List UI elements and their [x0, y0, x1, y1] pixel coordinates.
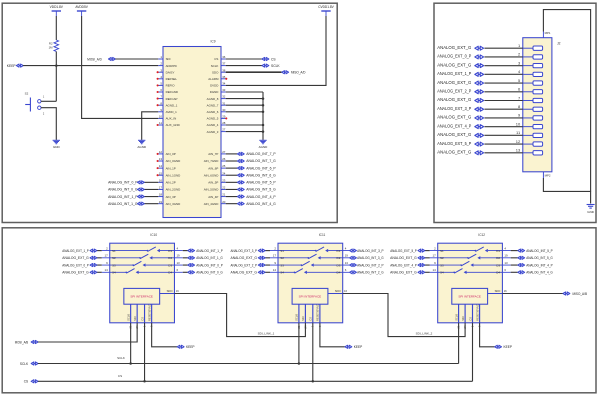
svg-text:13: 13: [176, 261, 180, 265]
wire ANALOG_INT_0_P to pin 16: [144, 181, 158, 183]
IC12 switch channel 1: [430, 250, 476, 252]
wire IC10 D2 to ANALOG_INT_1_G: [183, 257, 188, 259]
svg-text:D4: D4: [337, 270, 341, 274]
wire MP2 to right rail: [543, 178, 590, 204]
junction CS/IC10: [143, 380, 146, 383]
wire IC12 SDO to MISO_A/B: [502, 293, 562, 295]
port ANALOG_INT_0_P: [188, 264, 195, 267]
svg-text:19: 19: [345, 254, 349, 258]
IC9 pin 4 REFSEL: [158, 78, 163, 80]
wire VDD1.8V to resistor: [55, 16, 57, 40]
IC9 pin 21 AIN_4P: [221, 196, 226, 198]
junction SCLK/IC11: [298, 362, 301, 365]
IC9 pin 7 REFCAP: [158, 98, 163, 100]
svg-text:AGND_8: AGND_8: [207, 97, 219, 101]
svg-text:AUX_GND: AUX_GND: [166, 123, 180, 127]
svg-text:CS: CS: [24, 380, 28, 384]
svg-text:26: 26: [222, 157, 226, 161]
analog switch IC11 body: [278, 243, 343, 323]
wire pin 23 to ANALOG_INT_5_P: [226, 181, 238, 183]
svg-text:MISO_A/D: MISO_A/D: [291, 71, 306, 75]
svg-text:S2: S2: [112, 256, 116, 260]
svg-text:ANALOG_INT_4_P: ANALOG_INT_4_P: [246, 195, 276, 199]
svg-text:37: 37: [222, 62, 226, 66]
IC12 pin CS: [472, 304, 474, 323]
svg-text:CS: CS: [271, 57, 276, 61]
wire pin 25 to ANALOG_INT_6_P: [226, 167, 238, 169]
svg-text:MOSI_A/B: MOSI_A/B: [15, 340, 29, 344]
wire CVDD1.8V to DVDD pin 34: [226, 16, 326, 85]
wire MOSI_A/B to IC10 SDI: [38, 323, 137, 342]
IC9 pin 23 AIN_5P: [221, 181, 226, 183]
port ANALOG_INT_4_G: [518, 271, 525, 274]
IC11 switch channel 3: [270, 264, 301, 266]
svg-text:ANALOG_INT_6_P: ANALOG_INT_6_P: [246, 166, 276, 170]
svg-text:14: 14: [273, 268, 277, 272]
J2 pin 2: [523, 56, 533, 58]
svg-text:15: 15: [159, 171, 163, 175]
IC9 pin 18 AIN_3P: [158, 196, 163, 198]
svg-text:SDI: SDI: [166, 57, 171, 61]
svg-text:SCLK: SCLK: [454, 314, 458, 321]
svg-text:S3: S3: [112, 263, 116, 267]
svg-text:AIN_5GND: AIN_5GND: [204, 188, 219, 192]
svg-text:AIN_0GND: AIN_0GND: [166, 159, 181, 163]
svg-text:ANALOG_INT_7_P: ANALOG_INT_7_P: [246, 152, 276, 156]
svg-text:ANALOG_EXT_3_P: ANALOG_EXT_3_P: [437, 106, 471, 111]
wire ANALOG_EXT_0_P to IC10 S3: [97, 264, 102, 266]
svg-text:REFSEL: REFSEL: [166, 77, 178, 81]
J2 pin 13: [523, 152, 533, 154]
IC11 pin SDI: [304, 304, 306, 323]
svg-text:MISO_A/B: MISO_A/B: [573, 292, 588, 296]
svg-text:ANALOG_INT_1_P: ANALOG_INT_1_P: [196, 249, 223, 253]
svg-text:AIN_6GND: AIN_6GND: [204, 173, 219, 177]
svg-text:ANALOG_INT_0_G: ANALOG_INT_0_G: [108, 188, 138, 192]
svg-text:AGND: AGND: [137, 145, 147, 149]
svg-text:IC11: IC11: [319, 233, 326, 237]
port ANALOG_INT_4_G: [237, 202, 244, 205]
wire IC11 D3 to ANALOG_INT_2_P: [348, 264, 350, 266]
wire ANALOG_EXT_G to IC10 S4: [97, 271, 102, 273]
wire ANALOG_EXT_3_P to IC11 S1: [265, 250, 270, 252]
svg-text:13: 13: [516, 148, 521, 153]
wire pin 26 to ANALOG_INT_7_G: [226, 160, 238, 162]
svg-text:ANALOG_INT_1_G: ANALOG_INT_1_G: [108, 202, 138, 206]
wire ANALOG_EXT_G to J2 pin 3: [484, 65, 522, 67]
svg-text:VDD1.8V: VDD1.8V: [50, 5, 64, 9]
svg-text:ANALOG_EXT_G: ANALOG_EXT_G: [390, 256, 417, 260]
svg-text:10: 10: [516, 121, 521, 126]
wire KEEP to pin 2: [23, 65, 158, 67]
svg-text:17: 17: [159, 186, 163, 190]
wire SCLK bus: [38, 363, 459, 365]
wire ANALOG_EXT_4_P to IC12 S3: [425, 264, 430, 266]
wire IC12 D2 to ANALOG_INT_5_G: [511, 257, 518, 259]
svg-text:ANALOG_INT_1_G: ANALOG_INT_1_G: [196, 256, 223, 260]
svg-text:ANALOG_EXT_G: ANALOG_EXT_G: [231, 270, 258, 274]
wire IC11 SDO to IC12 SDI (SDI_LINK_2): [343, 294, 465, 337]
power VDD1.8V: [50, 5, 64, 16]
IC12 SPI interface block: [452, 288, 488, 304]
port ANALOG_INT_7_G: [237, 159, 244, 162]
port ANALOG_INT_4_P: [237, 195, 244, 198]
ground GND (J2): [587, 205, 595, 215]
wire IC11 CS drop: [312, 323, 314, 382]
IC10 pin SDO: [160, 293, 175, 295]
svg-text:ANALOG_INT_4_G: ANALOG_INT_4_G: [246, 202, 276, 206]
svg-text:CVDD1.8V: CVDD1.8V: [318, 5, 334, 9]
svg-text:16: 16: [176, 289, 179, 293]
wire IC11 D4 to ANALOG_INT_2_G: [348, 271, 350, 273]
IC9 pin 6 REFGND: [158, 91, 163, 93]
port SCLK: [262, 64, 269, 67]
wire IC11 SCLK drop: [298, 323, 300, 364]
J2 pin 7: [523, 100, 533, 102]
wire ANALOG_EXT_3_P to J2 pin 8: [484, 108, 522, 110]
svg-text:DAISY: DAISY: [166, 70, 175, 74]
wire IC12 D1 to ANALOG_INT_5_P: [511, 250, 518, 252]
wire ANALOG_EXT_0_P to J2 pin 2: [484, 56, 522, 58]
port ANALOG_INT_5_P: [518, 249, 525, 252]
svg-text:AIN_1P: AIN_1P: [166, 166, 176, 170]
svg-text:ANALOG_EXT_3_P: ANALOG_EXT_3_P: [231, 249, 258, 253]
ground AGND (pin 8): [137, 140, 147, 149]
port ANALOG_INT_5_G: [237, 188, 244, 191]
svg-text:21: 21: [222, 193, 226, 197]
IC9 pin 36 CS: [221, 58, 226, 60]
J2 pin 3: [523, 65, 533, 67]
wire ANALOG_EXT_G to J2 pin 11: [484, 134, 522, 136]
IC9 pin 20 AIN_4GND: [221, 203, 226, 205]
svg-text:ANALOG_INT_1_P: ANALOG_INT_1_P: [108, 195, 138, 199]
svg-text:S2: S2: [440, 256, 444, 260]
svg-text:REFIO: REFIO: [166, 84, 176, 88]
wire ANALOG_EXT_G to J2 pin 13: [484, 152, 522, 154]
svg-text:ANALOG_EXT_G: ANALOG_EXT_G: [437, 62, 471, 67]
svg-text:S2: S2: [25, 92, 29, 96]
svg-text:ANALOG_INT_5_G: ANALOG_INT_5_G: [246, 188, 276, 192]
IC9 pin 1 SDI: [158, 58, 163, 60]
svg-text:AIN_6P: AIN_6P: [208, 166, 218, 170]
svg-text:S4: S4: [280, 270, 284, 274]
svg-text:AGND: AGND: [259, 145, 269, 149]
IC9 pin 33 DGND: [221, 91, 226, 93]
svg-text:SDO: SDO: [495, 289, 501, 293]
IC12 pin RESET/SYNC: [479, 304, 481, 323]
svg-text:ANALOG_INT_6_G: ANALOG_INT_6_G: [246, 173, 276, 177]
svg-text:AIN_1GND: AIN_1GND: [166, 173, 181, 177]
svg-text:AIN_4GND: AIN_4GND: [204, 202, 219, 206]
IC9 pin 17 AIN_2GND: [158, 188, 163, 190]
wire IC10 D3 to ANALOG_INT_0_P: [183, 264, 188, 266]
junction SCLK/IC10: [129, 362, 132, 365]
ground AGND (right collector): [259, 140, 269, 149]
svg-text:14: 14: [105, 268, 109, 272]
IC9 pin 22 AIN_5GND: [221, 188, 226, 190]
svg-text:SDI_LINK_2: SDI_LINK_2: [416, 332, 433, 336]
port ANALOG_INT_2_P: [350, 264, 357, 267]
IC9 pin 27 AIN_7P: [221, 153, 226, 155]
svg-text:S4: S4: [440, 270, 444, 274]
wire IC12 CS drop: [472, 323, 474, 382]
svg-text:ANALOG_INT_4_P: ANALOG_INT_4_P: [526, 263, 553, 267]
svg-text:ANALOG_INT_3_P: ANALOG_INT_3_P: [357, 249, 384, 253]
svg-text:RESET/SYNC: RESET/SYNC: [147, 304, 151, 321]
svg-text:ANALOG_EXT_5_P: ANALOG_EXT_5_P: [437, 141, 471, 146]
svg-text:SCLK: SCLK: [126, 314, 130, 321]
svg-text:KEEP: KEEP: [504, 345, 513, 349]
svg-text:S4: S4: [112, 270, 116, 274]
svg-text:AIN_3P: AIN_3P: [166, 195, 176, 199]
svg-text:D1: D1: [168, 249, 172, 253]
svg-text:CS: CS: [468, 317, 472, 321]
IC12 switch channel 2: [430, 257, 468, 259]
IC9 pin 10 AUX_IN: [158, 117, 163, 119]
svg-text:REFCAP: REFCAP: [166, 97, 178, 101]
IC9 pin 27 AGND_3: [221, 131, 226, 133]
wire pin 27 to ANALOG_INT_7_P: [226, 153, 238, 155]
switch S2: [25, 92, 45, 116]
wire ANALOG_EXT_G to IC12 S2: [425, 257, 430, 259]
IC12 switch channel 3: [430, 264, 461, 266]
svg-text:CS: CS: [118, 374, 122, 378]
svg-text:MP1: MP1: [545, 31, 551, 35]
IC10 switch channel 1: [102, 250, 148, 252]
IC10 SPI interface block: [124, 288, 160, 304]
svg-text:SCLK: SCLK: [211, 64, 219, 68]
svg-text:ANALOG_EXT_G: ANALOG_EXT_G: [390, 270, 417, 274]
wire IC12 D3 to ANALOG_INT_4_P: [511, 264, 518, 266]
svg-text:ANALOG_EXT_5_P: ANALOG_EXT_5_P: [390, 249, 417, 253]
wire IC12 D4 to ANALOG_INT_4_G: [511, 271, 518, 273]
wire switch top to KEEP net: [41, 100, 56, 102]
svg-text:D3: D3: [168, 263, 172, 267]
resistor R2 1M: [54, 40, 59, 52]
svg-text:SDO: SDO: [335, 289, 341, 293]
svg-text:AIN_5P: AIN_5P: [208, 181, 218, 185]
IC9 pin 38 SDO: [221, 71, 226, 73]
IC9 pin 16 AIN_2P: [158, 181, 163, 183]
svg-text:16: 16: [344, 289, 347, 293]
svg-text:AGND_5: AGND_5: [207, 117, 219, 121]
analog switch IC12 body: [438, 243, 503, 323]
wire resistor to KEEP net: [55, 52, 57, 102]
svg-text:28: 28: [222, 121, 226, 125]
svg-text:RESET/SYNC: RESET/SYNC: [316, 304, 320, 321]
wire pin 9 to AGND: [142, 112, 159, 140]
wire pin 20 to ANALOG_INT_4_G: [226, 203, 238, 205]
svg-text:13: 13: [159, 157, 163, 161]
IC9 pin 32 AGND_8: [221, 98, 226, 100]
IC10 switch channel 2: [102, 257, 140, 259]
svg-text:17: 17: [273, 254, 277, 258]
IC9 pin 34 DVDD: [221, 84, 226, 86]
svg-text:14: 14: [432, 268, 436, 272]
IC9 pin 29 AGND_5: [221, 117, 226, 119]
wire ANALOG_EXT_2_P to IC11 S3: [265, 264, 270, 266]
J2 pin 9: [523, 117, 533, 119]
svg-text:SCLK: SCLK: [20, 362, 29, 366]
svg-text:S1: S1: [440, 249, 444, 253]
IC10 pin RESET/SYNC: [151, 304, 153, 323]
svg-text:ANALOG_EXT_4_P: ANALOG_EXT_4_P: [437, 123, 471, 128]
svg-text:34: 34: [222, 82, 226, 86]
svg-text:SDI: SDI: [461, 316, 465, 321]
IC12 pin SDO: [488, 293, 503, 295]
port ANALOG_INT_5_P: [237, 181, 244, 184]
svg-text:11: 11: [159, 121, 162, 125]
junction KEEP/resistor: [55, 64, 58, 67]
svg-text:ANALOG_INT_7_G: ANALOG_INT_7_G: [246, 159, 276, 163]
svg-text:17: 17: [432, 254, 436, 258]
wire SCLK to port: [226, 65, 262, 67]
svg-text:AIN_3GND: AIN_3GND: [166, 202, 181, 206]
wire DGND group collector: [262, 92, 264, 140]
svg-text:16: 16: [159, 178, 163, 182]
pin MP1: [542, 32, 544, 38]
wire ANALOG_EXT_4_P to J2 pin 10: [484, 126, 522, 128]
J2 pin 5: [523, 82, 533, 84]
wire ANALOG_EXT_G to J2 pin 1: [484, 47, 522, 49]
svg-text:30: 30: [222, 108, 226, 112]
wire ANALOG_INT_1_G to pin 19: [144, 203, 158, 205]
IC11 SPI interface block: [292, 288, 328, 304]
port ANALOG_INT_7_P: [237, 152, 244, 155]
op IC9 ADC body: [163, 47, 221, 218]
wire IC10 SDO to IC11 SDI (SDI_LINK_1): [174, 294, 305, 337]
junctions on AGND collector: [262, 97, 265, 100]
svg-text:AGND_1: AGND_1: [166, 103, 178, 107]
port KEEP (IC12): [495, 345, 502, 348]
power AVDD5V: [75, 5, 88, 16]
svg-text:31: 31: [222, 101, 226, 105]
junction CS/IC11: [312, 380, 315, 383]
IC11 pin RESET/SYNC: [319, 304, 321, 323]
wire MOSI_A/D to pin 1: [115, 58, 158, 60]
svg-text:ANALOG_INT_5_P: ANALOG_INT_5_P: [526, 249, 553, 253]
power CVDD1.8V: [318, 5, 334, 16]
svg-text:ANALOG_EXT_G: ANALOG_EXT_G: [437, 150, 471, 155]
wire ANALOG_EXT_5_P to J2 pin 12: [484, 143, 522, 145]
svg-text:D1: D1: [496, 249, 500, 253]
svg-text:16: 16: [504, 289, 507, 293]
wire IC12 RESET to KEEP: [480, 323, 495, 347]
wire ANALOG_INT_0_G to pin 17: [144, 188, 158, 190]
svg-text:AGND_4: AGND_4: [207, 123, 219, 127]
wire ANALOG_EXT_G to J2 pin 7: [484, 100, 522, 102]
wire IC10 D1 to ANALOG_INT_1_P: [183, 250, 188, 252]
svg-text:IC10: IC10: [150, 233, 157, 237]
IC9 pin 2 ADR/PD: [158, 65, 163, 67]
IC11 pin SDO: [328, 293, 343, 295]
ground GND (switch): [53, 140, 61, 149]
svg-text:CS: CS: [140, 317, 144, 321]
IC10 pin SCLK: [130, 304, 132, 323]
pin MP2: [542, 172, 544, 178]
svg-text:SDI_LINK_1: SDI_LINK_1: [258, 332, 275, 336]
IC9 pin 26 AIN_7GND: [221, 160, 226, 162]
J2 pin 4: [523, 73, 533, 75]
svg-text:GND: GND: [53, 145, 61, 149]
svg-text:IC9: IC9: [211, 40, 216, 44]
svg-text:S3: S3: [280, 263, 284, 267]
port KEEP (IC11): [345, 345, 352, 348]
IC10 switch channel 3: [102, 264, 133, 266]
svg-text:MP2: MP2: [545, 174, 551, 178]
svg-text:AIN_7GND: AIN_7GND: [204, 159, 219, 163]
svg-text:D2: D2: [337, 256, 341, 260]
IC9 pin 19 AIN_3GND: [158, 203, 163, 205]
wire ANALOG_EXT_G to J2 pin 9: [484, 117, 522, 119]
svg-text:1M: 1M: [49, 46, 54, 50]
wire IC11 RESET to KEEP: [320, 323, 345, 347]
svg-text:AIN_2GND: AIN_2GND: [166, 188, 181, 192]
svg-text:10: 10: [159, 115, 163, 119]
IC9 pin 37 SCLK: [221, 65, 226, 67]
svg-text:D4: D4: [168, 270, 172, 274]
IC10 pin SDI: [136, 304, 138, 323]
svg-text:ANALOG_EXT_G: ANALOG_EXT_G: [437, 132, 471, 137]
svg-text:ANALOG_EXT_G: ANALOG_EXT_G: [62, 256, 89, 260]
svg-text:ANALOG_EXT_G: ANALOG_EXT_G: [437, 45, 471, 50]
svg-text:MOSI_A/D: MOSI_A/D: [87, 57, 102, 61]
svg-text:25: 25: [222, 164, 226, 168]
sheet border top-right block: [434, 3, 596, 222]
svg-text:S1: S1: [280, 249, 284, 253]
IC9 pin 9 AVDD_1: [158, 111, 163, 113]
port KEEP (IC10): [177, 345, 184, 348]
svg-text:24: 24: [222, 171, 226, 175]
svg-text:SDO: SDO: [167, 289, 173, 293]
port ANALOG_INT_1_G: [188, 256, 195, 259]
svg-text:19: 19: [159, 200, 163, 204]
wire AVDD5V to pin 10: [82, 16, 159, 118]
wire ANALOG_EXT_G to IC12 S4: [425, 271, 430, 273]
svg-text:13: 13: [345, 261, 349, 265]
svg-text:AIN_0P: AIN_0P: [166, 152, 176, 156]
svg-text:SCLK: SCLK: [117, 356, 125, 360]
svg-text:SDI: SDI: [133, 316, 137, 321]
wire switch bottom to GND: [41, 108, 56, 140]
svg-text:RESET/SYNC: RESET/SYNC: [475, 304, 479, 321]
IC9 pin 12 AIN_0P: [158, 153, 163, 155]
port ANALOG_INT_1_P: [188, 249, 195, 252]
svg-text:SCLK: SCLK: [271, 64, 280, 68]
wire IC10 CS drop: [144, 323, 146, 382]
port MISO_A/D: [282, 71, 289, 74]
port ANALOG_INT_3_G: [350, 256, 357, 259]
svg-text:D2: D2: [496, 256, 500, 260]
IC9 pin 13 AIN_0GND: [158, 160, 163, 162]
svg-text:33: 33: [222, 88, 226, 92]
svg-text:ANALOG_EXT_2_P: ANALOG_EXT_2_P: [231, 263, 258, 267]
svg-text:12: 12: [159, 150, 163, 154]
svg-text:SPI INTERFACE: SPI INTERFACE: [130, 294, 153, 298]
svg-text:ANALOG_EXT_0_P: ANALOG_EXT_0_P: [62, 263, 89, 267]
svg-text:ANALOG_EXT_4_P: ANALOG_EXT_4_P: [390, 263, 417, 267]
svg-text:SDI: SDI: [301, 316, 305, 321]
connector J2 body: [523, 38, 552, 172]
svg-text:27: 27: [222, 128, 226, 132]
svg-text:J2: J2: [557, 42, 561, 46]
port ANALOG_INT_6_G: [237, 174, 244, 177]
port MISO_A/B: [563, 292, 570, 295]
IC9 pin 14 AIN_1P: [158, 167, 163, 169]
svg-text:AGND_3: AGND_3: [207, 130, 219, 134]
svg-text:ANALOG_INT_0_P: ANALOG_INT_0_P: [196, 263, 223, 267]
svg-text:ANALOG_EXT_G: ANALOG_EXT_G: [62, 270, 89, 274]
